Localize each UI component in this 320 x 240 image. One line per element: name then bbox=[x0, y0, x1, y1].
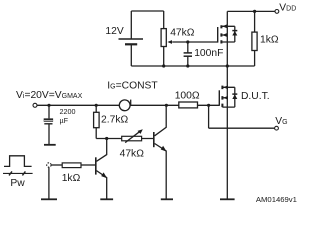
transistor Q1 emitter arrow bbox=[101, 172, 107, 178]
wire pulse input to 1k bbox=[51, 164, 62, 166]
capacitor 2200uF electrolytic bbox=[48, 105, 50, 144]
svg-text:100nF: 100nF bbox=[194, 48, 223, 59]
svg-text:D.U.T.: D.U.T. bbox=[241, 91, 270, 102]
node 100nF bottom junction bbox=[186, 64, 189, 67]
resistor 1k (top right) bbox=[254, 11, 256, 66]
capacitor C 100nF bbox=[187, 42, 189, 66]
node 1k branch on VDD rail bbox=[253, 10, 256, 13]
svg-text:12V: 12V bbox=[105, 26, 123, 37]
svg-text:1kΩ: 1kΩ bbox=[62, 173, 81, 184]
wire main gate-drive rail bbox=[37, 104, 219, 106]
resistor 1k (bottom) bbox=[62, 163, 81, 168]
svg-text:AM01469v1: AM01469v1 bbox=[256, 195, 297, 204]
terminal Vi input circle bbox=[33, 103, 37, 107]
wire VG horizontal bbox=[209, 127, 275, 129]
DUT channel segments bbox=[221, 86, 223, 108]
P-MOSFET body diode bbox=[234, 26, 236, 42]
wire VG branch vertical bbox=[208, 105, 210, 128]
DUT arrows bbox=[223, 85, 228, 89]
wire VDD rail bbox=[227, 10, 275, 12]
potentiometer 47k (top) wiper arrow bbox=[172, 41, 218, 43]
P-MOSFET arrows bbox=[222, 24, 227, 28]
transistor Q1 base bar bbox=[95, 157, 97, 174]
DUT leads bbox=[222, 87, 234, 107]
ground below DUT bbox=[220, 198, 235, 200]
node pot bottom junction bbox=[162, 64, 165, 67]
svg-text:1kΩ: 1kΩ bbox=[260, 35, 279, 46]
transistor Q2 emitter arrow bbox=[161, 146, 167, 152]
node P-FET drain / rail junction bbox=[226, 64, 229, 67]
svg-text:2.7kΩ: 2.7kΩ bbox=[101, 115, 128, 126]
current source tick bbox=[130, 100, 132, 105]
pulse width measure line bbox=[3, 172, 33, 174]
DUT N-MOSFET gate bar bbox=[218, 90, 220, 106]
current source Ig circle bbox=[119, 100, 130, 111]
resistor 100 ohm bbox=[179, 102, 198, 108]
node Q1 collector branch bbox=[105, 137, 108, 140]
resistor 2.7k bbox=[95, 105, 97, 138]
transistor Q2 emitter bbox=[155, 144, 167, 200]
wire right vertical of 12V loop bbox=[163, 11, 165, 66]
node Q2 collector branch bbox=[165, 104, 168, 107]
transistor Q1 emitter bbox=[97, 171, 107, 199]
svg-text:47kΩ: 47kΩ bbox=[170, 28, 195, 39]
terminal VG circle bbox=[275, 126, 279, 130]
wire pulse input down bbox=[48, 167, 50, 199]
svg-text:IG=CONST: IG=CONST bbox=[107, 81, 158, 92]
node 100nF top junction bbox=[186, 40, 189, 43]
wire 2.7k bottom to pot rail bbox=[96, 138, 153, 140]
rheostat 47k (bottom) body bbox=[122, 136, 142, 141]
DUT drain/source vertical bbox=[226, 66, 228, 199]
op P-MOSFET switch gate bar bbox=[217, 27, 219, 43]
DUT body diode bbox=[234, 87, 236, 107]
P-MOSFET leads bbox=[221, 26, 234, 42]
ground below pulse input bbox=[41, 198, 57, 200]
node 2.7k branch bbox=[95, 104, 98, 107]
node 2200uF branch bbox=[47, 104, 50, 107]
pulse width tick left bbox=[9, 171, 12, 175]
battery 12V plates bbox=[119, 38, 144, 40]
potentiometer 47k (top) body bbox=[161, 29, 166, 47]
wire left vertical of 12V loop bbox=[130, 11, 132, 66]
wire 1k to Q1 base bbox=[81, 164, 95, 166]
transistor Q1 collector bbox=[97, 139, 107, 162]
pulse generator waveform bbox=[4, 156, 32, 167]
ground below Q1 bbox=[100, 198, 113, 200]
rheostat 47k (bottom) arrow bbox=[125, 131, 140, 142]
transistor Q2 base bar bbox=[153, 132, 155, 147]
svg-text:Pw: Pw bbox=[10, 178, 25, 189]
P-MOSFET source/drain vertical bbox=[226, 11, 228, 66]
wire top of 12V loop bbox=[131, 10, 163, 12]
pulse width tick right bbox=[22, 171, 25, 175]
svg-text:2200: 2200 bbox=[60, 107, 76, 116]
ground below Q2 bbox=[161, 198, 173, 200]
node VG branch bbox=[207, 104, 210, 107]
wire bottom rail of top section bbox=[131, 65, 254, 67]
terminal dashed circle pulse input bbox=[47, 163, 51, 167]
svg-text:µF: µF bbox=[60, 116, 69, 125]
ground below 2200uF bbox=[44, 144, 56, 146]
P-MOSFET channel segments bbox=[220, 25, 222, 43]
svg-text:47kΩ: 47kΩ bbox=[120, 148, 145, 159]
transistor Q2 collector bbox=[155, 105, 167, 136]
svg-text:100Ω: 100Ω bbox=[175, 91, 200, 102]
terminal VDD circle bbox=[275, 10, 279, 14]
